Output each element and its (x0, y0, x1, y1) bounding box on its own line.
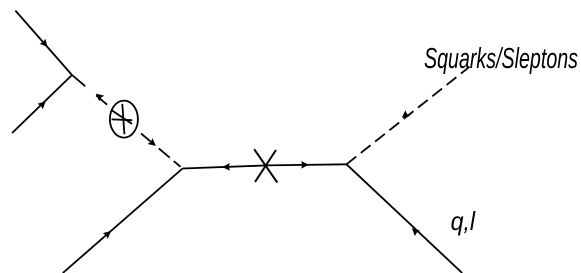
mass-insertion X leg 1 (254, 149, 277, 182)
horizontal bar in ellipse (112, 118, 133, 121)
dashed propagator V1 to V2 (72, 75, 183, 169)
fermion line in2 (lower left) (12, 75, 72, 133)
diagonal segment through ellipse (112, 110, 132, 124)
arrow pointing left toward V2 (222, 163, 230, 171)
arrow toward V1 on dashed propagator (93, 91, 104, 102)
arrow toward V2 on dashed propagator (148, 138, 159, 149)
fermion line V3 to bottom right (347, 164, 463, 273)
arrow pointing right toward V3 (301, 161, 309, 169)
arrow on bottom-left line (103, 228, 114, 239)
svg-text:Squarks/Sleptons: Squarks/Sleptons (424, 43, 578, 75)
arrow toward V3 on sfermion line (399, 110, 410, 121)
fermion line V2 to bottom left (63, 169, 183, 273)
vertical bar in ellipse (122, 104, 124, 134)
gaugino line V2 to V3 (183, 164, 347, 168)
arrow toward V3 on bottom-right line (409, 225, 420, 236)
arrow on in1 (40, 39, 51, 50)
dashed sfermion line V3 to label (347, 67, 470, 165)
arrow on in2 (38, 99, 49, 110)
mass insertion ellipse (110, 101, 138, 138)
svg-text:q,l: q,l (451, 206, 477, 236)
mass-insertion X leg 2 (255, 150, 276, 182)
fermion line in1 (top left) (15, 11, 72, 75)
